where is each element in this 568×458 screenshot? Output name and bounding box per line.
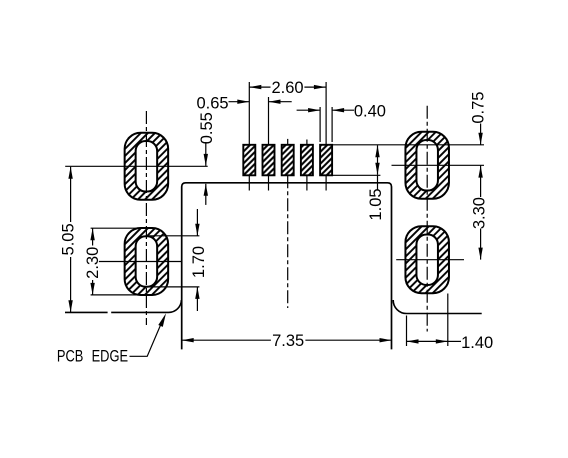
svg-text:0.40: 0.40 <box>354 103 386 121</box>
svg-text:1.70: 1.70 <box>190 246 208 278</box>
svg-text:PCB EDGE: PCB EDGE <box>57 348 128 366</box>
svg-text:0.75: 0.75 <box>470 92 488 124</box>
svg-text:5.05: 5.05 <box>59 223 77 255</box>
svg-text:0.65: 0.65 <box>196 95 228 113</box>
svg-text:2.60: 2.60 <box>271 79 303 97</box>
svg-text:3.30: 3.30 <box>471 197 489 229</box>
svg-text:7.35: 7.35 <box>272 332 304 350</box>
svg-text:1.40: 1.40 <box>461 334 493 352</box>
svg-text:0.55: 0.55 <box>198 112 216 144</box>
svg-text:2.30: 2.30 <box>84 247 102 279</box>
svg-text:1.05: 1.05 <box>367 188 385 220</box>
